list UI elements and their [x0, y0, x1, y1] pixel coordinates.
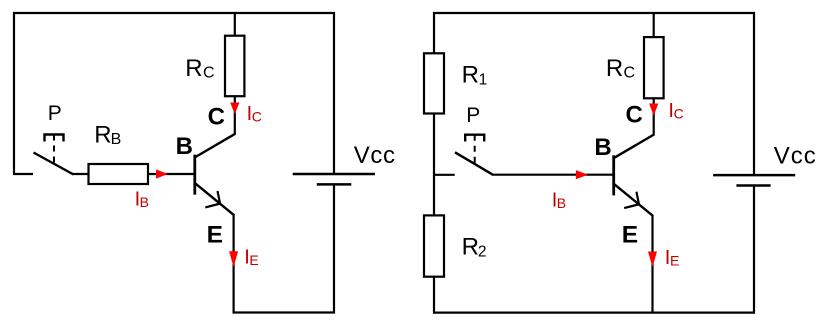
svg-text:C: C [626, 102, 643, 129]
actuator dashed line [53, 135, 55, 165]
current arrow IB (left) [135, 169, 168, 210]
actuator dashed line [474, 135, 476, 165]
wire switch to base (right) [492, 174, 613, 176]
svg-text:B: B [594, 134, 611, 161]
push button cap [465, 135, 484, 142]
wire right border top segment (to battery +) [753, 12, 755, 175]
wire fixed contact stub [13, 173, 33, 175]
wire RB to base [148, 173, 194, 175]
battery Vcc (left) [293, 142, 396, 184]
wire top border to RC [653, 13, 655, 37]
svg-text:P: P [48, 102, 62, 125]
svg-text:R: R [462, 234, 479, 261]
wire left border upper segment [433, 12, 435, 54]
svg-text:B: B [557, 195, 566, 211]
emitter arrowhead [205, 191, 220, 207]
wire right border bottom segment (from battery -) [333, 184, 335, 313]
current arrow IE (right) [648, 247, 679, 269]
collector diagonal [196, 134, 236, 157]
wire switch to RB [73, 173, 90, 175]
wire top border right circuit [433, 12, 755, 14]
svg-text:Vcc: Vcc [774, 143, 817, 170]
emitter diagonal [196, 184, 235, 216]
collector vertical wire [234, 97, 236, 135]
wire top border to RC [234, 13, 236, 36]
short negative plate [317, 183, 352, 186]
svg-text:C: C [203, 64, 215, 81]
svg-text:B: B [140, 194, 149, 210]
emitter arrowhead [624, 192, 639, 208]
base bar [612, 155, 615, 195]
svg-text:E: E [622, 222, 638, 249]
current arrow IE (left) [229, 247, 259, 269]
push button cap [45, 135, 64, 142]
svg-text:C: C [208, 104, 225, 131]
emitter vertical wire [233, 215, 235, 314]
svg-text:2: 2 [478, 243, 487, 260]
svg-text:P: P [466, 104, 480, 127]
svg-text:1: 1 [479, 71, 488, 88]
switch blade [455, 152, 493, 175]
svg-text:B: B [176, 133, 193, 160]
wire left border lower segment [433, 277, 435, 314]
emitter diagonal [614, 184, 653, 216]
battery Vcc (right) [713, 143, 817, 186]
transistor Q2 (right, NPN) [594, 99, 654, 314]
resistor RB [89, 122, 149, 184]
long positive plate [713, 174, 795, 177]
transistor Q1 (left, NPN) [176, 97, 236, 314]
wire left border middle segment [433, 114, 435, 216]
resistor RC (left) [185, 13, 244, 96]
svg-text:C: C [252, 108, 262, 124]
svg-text:Vcc: Vcc [354, 142, 396, 169]
wire right border bottom segment (from battery -) [753, 186, 755, 314]
svg-text:C: C [674, 106, 684, 122]
resistor RC (right) [606, 13, 664, 98]
current arrow IB (right) [552, 170, 588, 211]
wire bottom border right circuit [433, 312, 755, 314]
switch blade [34, 153, 74, 175]
switch P (push-button, right circuit) [434, 104, 493, 175]
collector vertical wire [653, 99, 655, 135]
svg-text:E: E [207, 221, 223, 248]
wire bottom border left circuit [233, 311, 336, 313]
short negative plate [736, 184, 770, 187]
current arrow IC (left) [230, 103, 262, 125]
current arrow IC (right) [649, 100, 684, 122]
wire right border top segment (to battery +) [333, 12, 335, 174]
switch P (push-button, left circuit) [13, 102, 74, 175]
svg-text:R: R [94, 122, 111, 149]
wire top border left circuit [13, 12, 335, 14]
svg-text:R: R [606, 55, 623, 82]
svg-text:E: E [670, 253, 679, 269]
resistor R1 [424, 53, 487, 113]
long positive plate [293, 173, 375, 176]
svg-text:B: B [111, 131, 122, 148]
collector diagonal [614, 134, 654, 157]
emitter vertical wire [651, 215, 653, 313]
svg-text:E: E [249, 252, 258, 268]
resistor R2 [424, 215, 487, 276]
svg-text:C: C [624, 65, 636, 82]
svg-text:R: R [185, 55, 202, 82]
wire fixed contact stub [434, 174, 455, 176]
svg-text:R: R [462, 62, 479, 89]
base bar [193, 155, 196, 195]
wire left border left circuit [13, 12, 15, 175]
